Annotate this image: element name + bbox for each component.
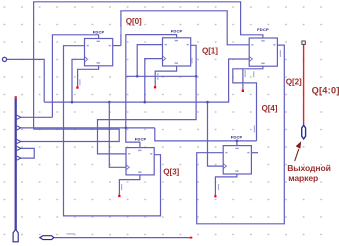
svg-text:FDCP: FDCP [231, 135, 243, 140]
wire FF1 Q stub [113, 45, 121, 47]
output marker port square [302, 41, 305, 44]
wire FF3 CLR net to FF4 preset rail [233, 66, 263, 141]
wire FF1 C from clock rail [72, 59, 85, 102]
svg-text:FDCP: FDCP [93, 29, 105, 34]
wire bus tap1 rail y=117.3 [20, 116, 52, 118]
dangling wire red end markers [76, 86, 244, 197]
wire top rail net CLK0 (from vertical x33.5 to FF3 preset) [34, 2, 263, 129]
wire h1 branch y=76.3 [126, 75, 196, 77]
svg-text:маркер: маркер [288, 173, 318, 183]
wire FF3 Q to FF4 D [197, 45, 285, 224]
wire FF4 preset rail y=140.9 [155, 128, 257, 141]
svg-text:Q[4]: Q[4] [262, 104, 278, 113]
flip-flop U2 FDCP body [163, 29, 191, 66]
svg-text:Q[0]: Q[0] [126, 17, 142, 26]
svg-text:Q[3]: Q[3] [163, 168, 179, 177]
bus top red tip [15, 96, 17, 98]
bus tap arrow 2 [17, 126, 21, 130]
wire FF4 preset rail y=140.9 from bus tap2 [20, 127, 154, 129]
bus Q[4:0] vertical [15, 97, 17, 230]
wire FF4 Q stub bare [252, 152, 259, 154]
wire FF1 preset net to bus tap1 [52, 35, 98, 118]
bus tap arrow 3 [17, 139, 21, 143]
bus terminal hexagon [13, 229, 18, 241]
bus tap arrow 1 [17, 115, 21, 119]
tiny net name labels [67, 27, 282, 235]
flip-flop U5 FDCP body [126, 137, 154, 175]
bus tap arrow 5 [17, 156, 21, 160]
wire output line to marker [54, 237, 191, 239]
bus tap arrow 4 [17, 146, 21, 150]
svg-text:Q[4:0]: Q[4:0] [312, 85, 339, 95]
svg-text:FDCP: FDCP [135, 137, 147, 142]
wire input pin to clock rail [6, 59, 44, 102]
svg-text:Q[1]: Q[1] [202, 46, 218, 55]
wire FF4 C from clock rail [208, 102, 224, 166]
wire FF2 C from clock rail [145, 59, 163, 103]
wire FF4 CLR dangling [215, 174, 237, 196]
red net highlight line Q[4:0] [303, 45, 305, 126]
svg-text:FDCP: FDCP [171, 29, 183, 34]
output line terminal hexagon [40, 236, 54, 240]
output line dangling red tip [190, 237, 192, 239]
wire FF1 D net from FF5 Q (bottom rail y=215.9) [64, 46, 161, 216]
flip-flop U3 FDCP body [249, 27, 277, 66]
wire FF1 CLR dangling [78, 66, 99, 87]
junction dots [71, 75, 239, 142]
input pin terminal [2, 57, 6, 61]
wire FF2 preset net to FF5 preset [126, 35, 177, 148]
wire clock tee down to FF5 C [109, 102, 126, 167]
svg-text:Q[2]: Q[2] [286, 77, 302, 86]
wire FF5 CLR dangling [119, 175, 139, 195]
output marker hexagon [302, 125, 306, 139]
svg-text:FDCP: FDCP [257, 27, 269, 32]
pin name marks inside flip-flop bodies [87, 40, 276, 173]
wire FF2 Q down / h1 rail y=76.3 / to rail y=119.7 to FF5 D [98, 45, 197, 154]
wire clock rail (y=102.1) to FF3 C [44, 59, 249, 102]
wire FF2 CLR dangling [155, 66, 176, 86]
wire bus tap4-tap5 loop [20, 148, 34, 158]
red annotation arrow [295, 141, 302, 161]
svg-text:Выходной: Выходной [287, 163, 331, 173]
wire FF2 D branch from h1 [137, 45, 162, 77]
flip-flop U1 FDCP body [85, 29, 113, 65]
flip-flop U4 FDCP body [223, 135, 251, 175]
wire lineB from top-rail vertical to tap3 riser [20, 129, 119, 141]
wire FF4 preset stub [236, 141, 238, 146]
wire rail Q0->FF3 D (y=10.8) [121, 11, 249, 46]
wire FF3 CLR dangling stub [242, 69, 244, 90]
